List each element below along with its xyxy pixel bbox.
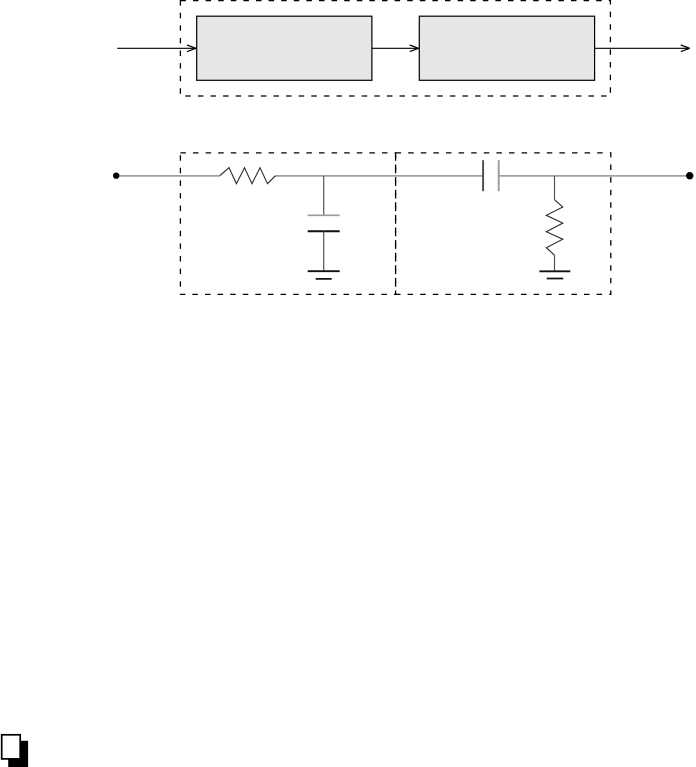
ground (left) <box>308 271 340 279</box>
wire: series capacitor to output terminal <box>499 175 690 177</box>
shunt capacitor bottom plate <box>308 230 340 232</box>
wire stub: node to shunt resistor <box>554 176 556 200</box>
ground (right) <box>539 271 570 278</box>
block 1 <box>197 16 372 80</box>
wire: resistor to series capacitor <box>276 175 484 177</box>
block-diagram dashed enclosure <box>180 1 610 96</box>
wire stub: shunt resistor to ground <box>554 255 556 271</box>
series capacitor left plate <box>482 160 484 191</box>
series resistor (low-pass) <box>220 168 276 184</box>
page-curl icon (front sheet) <box>2 735 21 759</box>
block 2 <box>419 16 594 80</box>
low-pass stage dashed enclosure <box>180 153 395 295</box>
output arrow <box>595 45 690 52</box>
wire: input terminal to resistor <box>116 175 220 177</box>
inter-block arrow <box>372 45 419 52</box>
output terminal node <box>686 172 693 179</box>
shunt resistor (high-pass) <box>546 200 563 256</box>
input terminal node <box>113 173 119 179</box>
wire stub: node to shunt capacitor <box>323 176 325 216</box>
series capacitor right plate <box>498 160 500 191</box>
page-curl icon (back sheet) <box>8 741 28 767</box>
wire stub: shunt capacitor to ground <box>323 231 325 271</box>
input arrow <box>117 45 196 52</box>
high-pass stage dashed enclosure <box>396 153 611 295</box>
shunt capacitor top plate <box>308 214 340 216</box>
